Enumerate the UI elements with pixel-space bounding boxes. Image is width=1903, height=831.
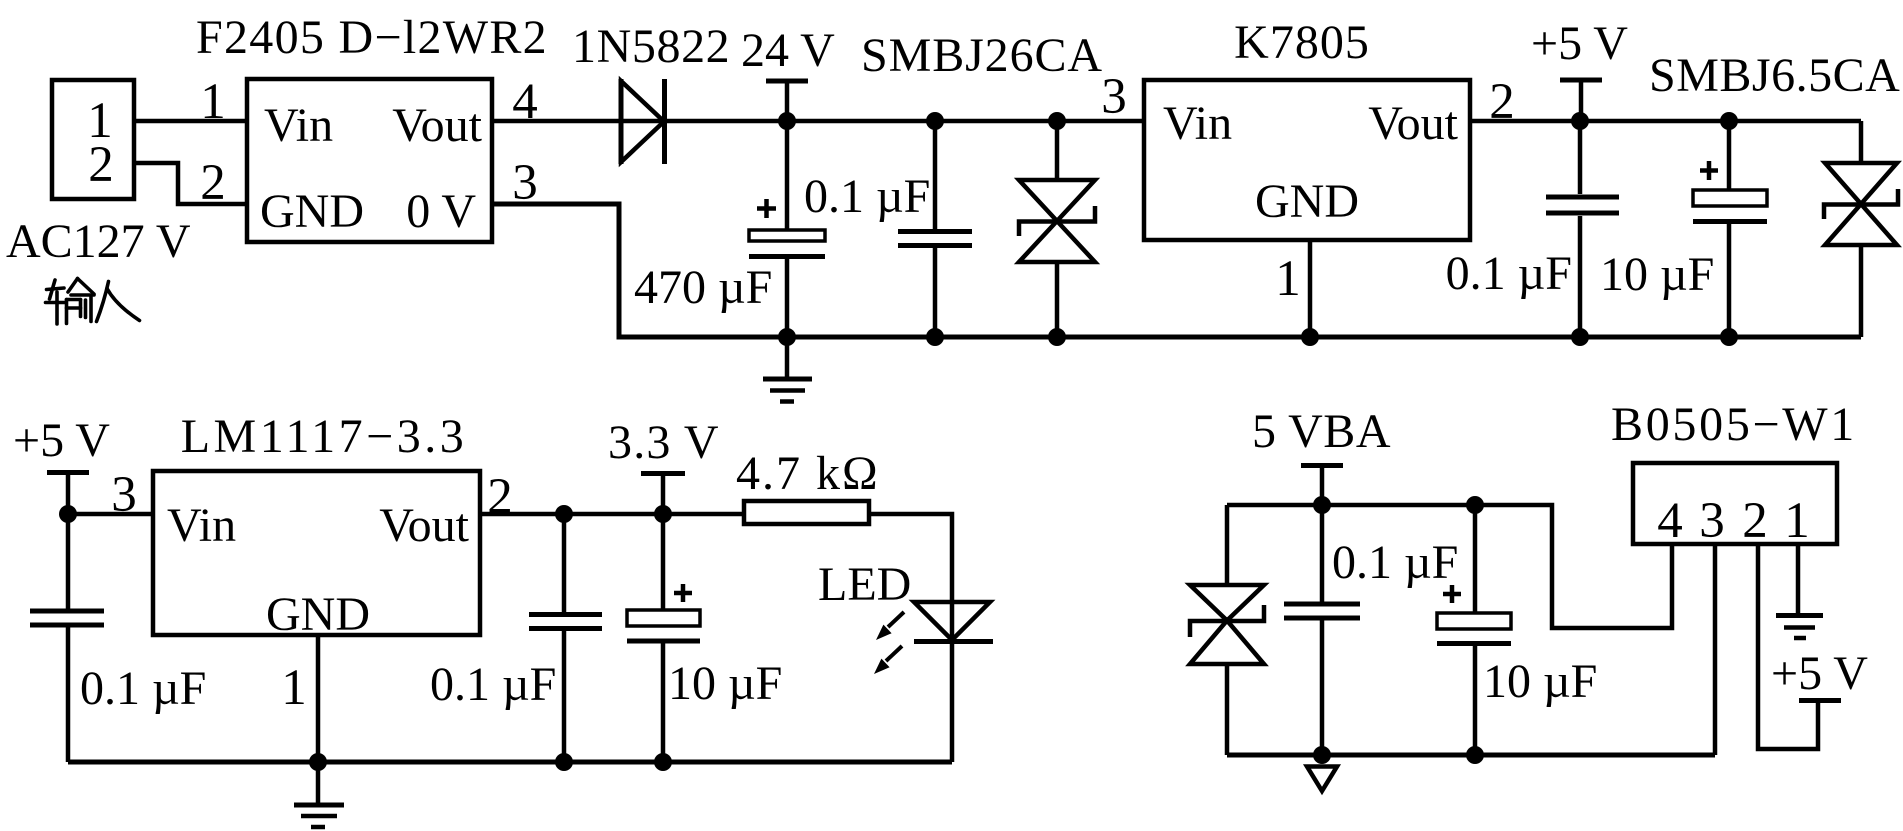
node junction C9 bottom <box>1466 746 1484 764</box>
wire 0V rail (top circuit) <box>492 204 1861 337</box>
svg-text:B0505−W1: B0505−W1 <box>1611 398 1857 451</box>
connector J1 AC input box <box>52 80 134 199</box>
svg-text:Vout: Vout <box>1368 97 1458 150</box>
LED D2 <box>914 602 990 640</box>
svg-text:2: 2 <box>200 155 226 211</box>
module U2 K7805 <box>1144 80 1470 240</box>
wire U1 Vout to K7805 Vin (24V net) <box>492 119 1144 124</box>
wire U3 GND pin1 to rail <box>316 635 321 762</box>
wire connector pin2 to F2405 GND <box>134 163 247 204</box>
node junction U2 GND <box>1301 328 1319 346</box>
svg-text:4.7 kΩ: 4.7 kΩ <box>736 447 880 500</box>
module U4 B0505-W1 <box>1633 463 1837 544</box>
svg-text:1: 1 <box>200 74 226 130</box>
node junction C8 top <box>1313 496 1331 514</box>
svg-text:Vout: Vout <box>379 499 469 552</box>
svg-text:1: 1 <box>1784 493 1810 549</box>
wire U4 pin2 to +5V tap <box>1758 544 1818 749</box>
wire U2 GND pin1 to rail <box>1308 240 1313 337</box>
capacitor C4 10uF (polarized) <box>1727 121 1732 190</box>
svg-text:Vout: Vout <box>392 99 482 152</box>
svg-text:0.1 µF: 0.1 µF <box>80 662 206 715</box>
svg-text:GND: GND <box>1255 175 1359 228</box>
node junction TVS1 bottom <box>1048 328 1066 346</box>
node junction 24V/C1 <box>778 112 796 130</box>
power tap 3.3V <box>641 471 685 476</box>
node junction C7 top <box>654 505 672 523</box>
svg-text:1: 1 <box>1275 251 1301 307</box>
wire resistor to LED <box>869 514 952 604</box>
svg-text:LED: LED <box>818 558 911 611</box>
svg-text:F2405 D−l2WR2: F2405 D−l2WR2 <box>196 11 548 64</box>
svg-text:1: 1 <box>281 660 307 716</box>
svg-text:1N5822: 1N5822 <box>572 20 730 73</box>
svg-text:2: 2 <box>88 137 114 193</box>
capacitor C8 0.1uF <box>1320 505 1325 602</box>
capacitor C1 470uF (polarized) <box>785 121 790 230</box>
svg-text:10 µF: 10 µF <box>1600 248 1714 301</box>
svg-text:K7805: K7805 <box>1234 16 1370 69</box>
capacitor C5 0.1uF <box>66 514 71 609</box>
node junction C4 top <box>1720 112 1738 130</box>
capacitor C2 0.1uF <box>933 121 938 229</box>
svg-text:SMBJ26CA: SMBJ26CA <box>861 29 1103 82</box>
svg-text:0 V: 0 V <box>406 185 476 238</box>
node junction C8 bottom <box>1313 746 1331 764</box>
power tap 5VBA <box>1301 463 1343 468</box>
svg-text:10 µF: 10 µF <box>1483 655 1597 708</box>
ground (open triangle, below C8) <box>1307 767 1337 792</box>
capacitor C9 10uF (polarized) <box>1473 505 1478 613</box>
LED arrow 2 <box>886 646 902 661</box>
power tap +5V (B0505 output) <box>1799 698 1841 703</box>
wire ground rail (bottom-right circuit) <box>1227 753 1715 758</box>
node junction C9 top <box>1466 496 1484 514</box>
node junction U3 GND <box>309 753 327 771</box>
wire U4 pin1 to earth ground <box>1796 544 1801 613</box>
svg-text:3.3 V: 3.3 V <box>608 416 720 469</box>
LED arrow 1 <box>888 612 904 627</box>
svg-text:LM1117−3.3: LM1117−3.3 <box>181 410 468 463</box>
svg-text:3: 3 <box>1699 493 1725 549</box>
svg-text:3: 3 <box>111 467 137 523</box>
svg-text:24 V: 24 V <box>741 24 835 77</box>
wire connector pin1 to F2405 Vin <box>134 119 247 124</box>
node junction +5V/C5 <box>59 505 77 523</box>
svg-text:+5 V: +5 V <box>13 414 110 467</box>
node junction C2 top <box>926 112 944 130</box>
svg-text:Vin: Vin <box>264 99 333 152</box>
svg-text:0.1 µF: 0.1 µF <box>1332 536 1458 589</box>
svg-text:SMBJ6.5CA: SMBJ6.5CA <box>1649 49 1900 102</box>
node junction C1 bottom <box>778 328 796 346</box>
svg-text:Vin: Vin <box>1163 97 1232 150</box>
node junction TVS1 top <box>1048 112 1066 130</box>
svg-text:2: 2 <box>487 469 513 525</box>
module U3 LM1117-3.3 <box>153 471 480 635</box>
diode D1 1N5822 <box>619 79 624 164</box>
module U1 F2405 D-l2WR2 <box>247 79 492 242</box>
node junction C6 bottom <box>555 753 573 771</box>
power tap +5V (top) <box>1560 78 1602 83</box>
earth ground (U4 pin1) <box>1776 613 1823 618</box>
TVS diode (5VBA rail) <box>1225 505 1230 583</box>
svg-text:0.1 µF: 0.1 µF <box>430 658 556 711</box>
label 输入 (CJK drawn as strokes) <box>46 279 140 325</box>
svg-text:4: 4 <box>1657 493 1683 549</box>
capacitor C6 0.1uF <box>562 514 567 612</box>
ground (below U3) <box>316 762 321 803</box>
svg-text:5 VBA: 5 VBA <box>1252 405 1391 458</box>
svg-text:Vin: Vin <box>167 499 236 552</box>
capacitor C7 10uF (polarized) <box>661 514 666 610</box>
svg-text:AC127 V: AC127 V <box>6 215 191 268</box>
svg-text:GND: GND <box>260 185 364 238</box>
wire K7805 Vout to SMBJ6.5CA (+5V net) <box>1470 119 1861 124</box>
wire U4 pin3 to ground rail <box>1713 544 1718 755</box>
svg-text:+5 V: +5 V <box>1531 17 1628 70</box>
svg-text:3: 3 <box>1101 69 1127 125</box>
svg-text:0.1 µF: 0.1 µF <box>804 170 930 223</box>
node junction C7 bottom <box>654 753 672 771</box>
svg-text:2: 2 <box>1742 493 1768 549</box>
node junction C3 top <box>1571 112 1589 130</box>
wire U3 Vout to resistor (3.3V net) <box>480 512 744 517</box>
svg-text:2: 2 <box>1489 74 1515 130</box>
svg-text:+5 V: +5 V <box>1771 647 1868 700</box>
svg-text:470 µF: 470 µF <box>634 261 772 314</box>
wire ground rail (bottom-left circuit) <box>68 760 952 765</box>
TVS diode SMBJ6.5CA <box>1859 121 1864 161</box>
power tap +24V <box>766 79 808 84</box>
wire +5V to LM1117 Vin <box>68 512 153 517</box>
svg-text:10 µF: 10 µF <box>668 657 782 710</box>
ground (below C1) <box>785 337 790 377</box>
node junction C3 bottom <box>1571 328 1589 346</box>
node junction C2 bottom <box>926 328 944 346</box>
TVS diode SMBJ26CA <box>1055 121 1060 178</box>
resistor R1 4.7k <box>744 501 869 524</box>
svg-text:GND: GND <box>266 588 370 641</box>
svg-text:0.1 µF: 0.1 µF <box>1446 247 1572 300</box>
node junction C4 bottom <box>1720 328 1738 346</box>
capacitor C3 0.1uF <box>1578 121 1583 194</box>
node junction C6 top <box>555 505 573 523</box>
wire 5VBA top rail to B0505 pin4 <box>1227 505 1672 628</box>
